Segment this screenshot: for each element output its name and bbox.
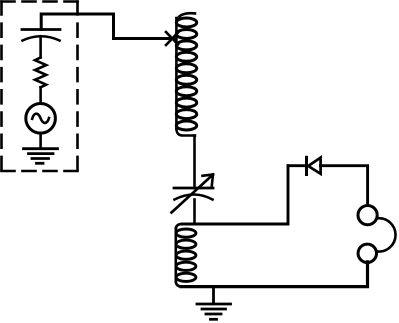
wire node to diode branch (middle horizontal + vertical riser)	[182, 166, 288, 224]
wire riser to diode anode	[288, 164, 306, 167]
inductor L1 (primary coil, tapped)	[176, 13, 196, 135]
wire L2 bottom to headphones bottom (bottom rail)	[181, 262, 368, 287]
wire L1 to variable capacitor	[193, 136, 196, 189]
wire variable capacitor to node at L2 top	[193, 200, 196, 225]
wire source to ground	[39, 133, 42, 148]
wire resistor to source	[39, 87, 42, 103]
variable capacitor (tuning)	[172, 175, 214, 213]
wire capacitor to resistor	[39, 36, 42, 57]
resistor (antenna resistance)	[35, 58, 46, 88]
wire from antenna capacitor top to tap arrow	[41, 14, 174, 39]
capacitor (antenna capacitance, flat + curved plate)	[22, 30, 60, 41]
ground (left, in dashed box)	[24, 149, 58, 164]
ground (bottom)	[197, 287, 231, 319]
wire diode to headphones top	[321, 166, 368, 206]
dashed box (antenna equivalent circuit)	[2, 2, 78, 172]
inductor L2 (secondary coil)	[176, 224, 196, 287]
tap arrowhead on coil L1	[166, 32, 178, 45]
AC source (signal generator)	[26, 104, 56, 134]
headphones (two earpieces + headband arc)	[358, 206, 396, 263]
diode (detector, cathode bar + triangle)	[307, 157, 321, 174]
